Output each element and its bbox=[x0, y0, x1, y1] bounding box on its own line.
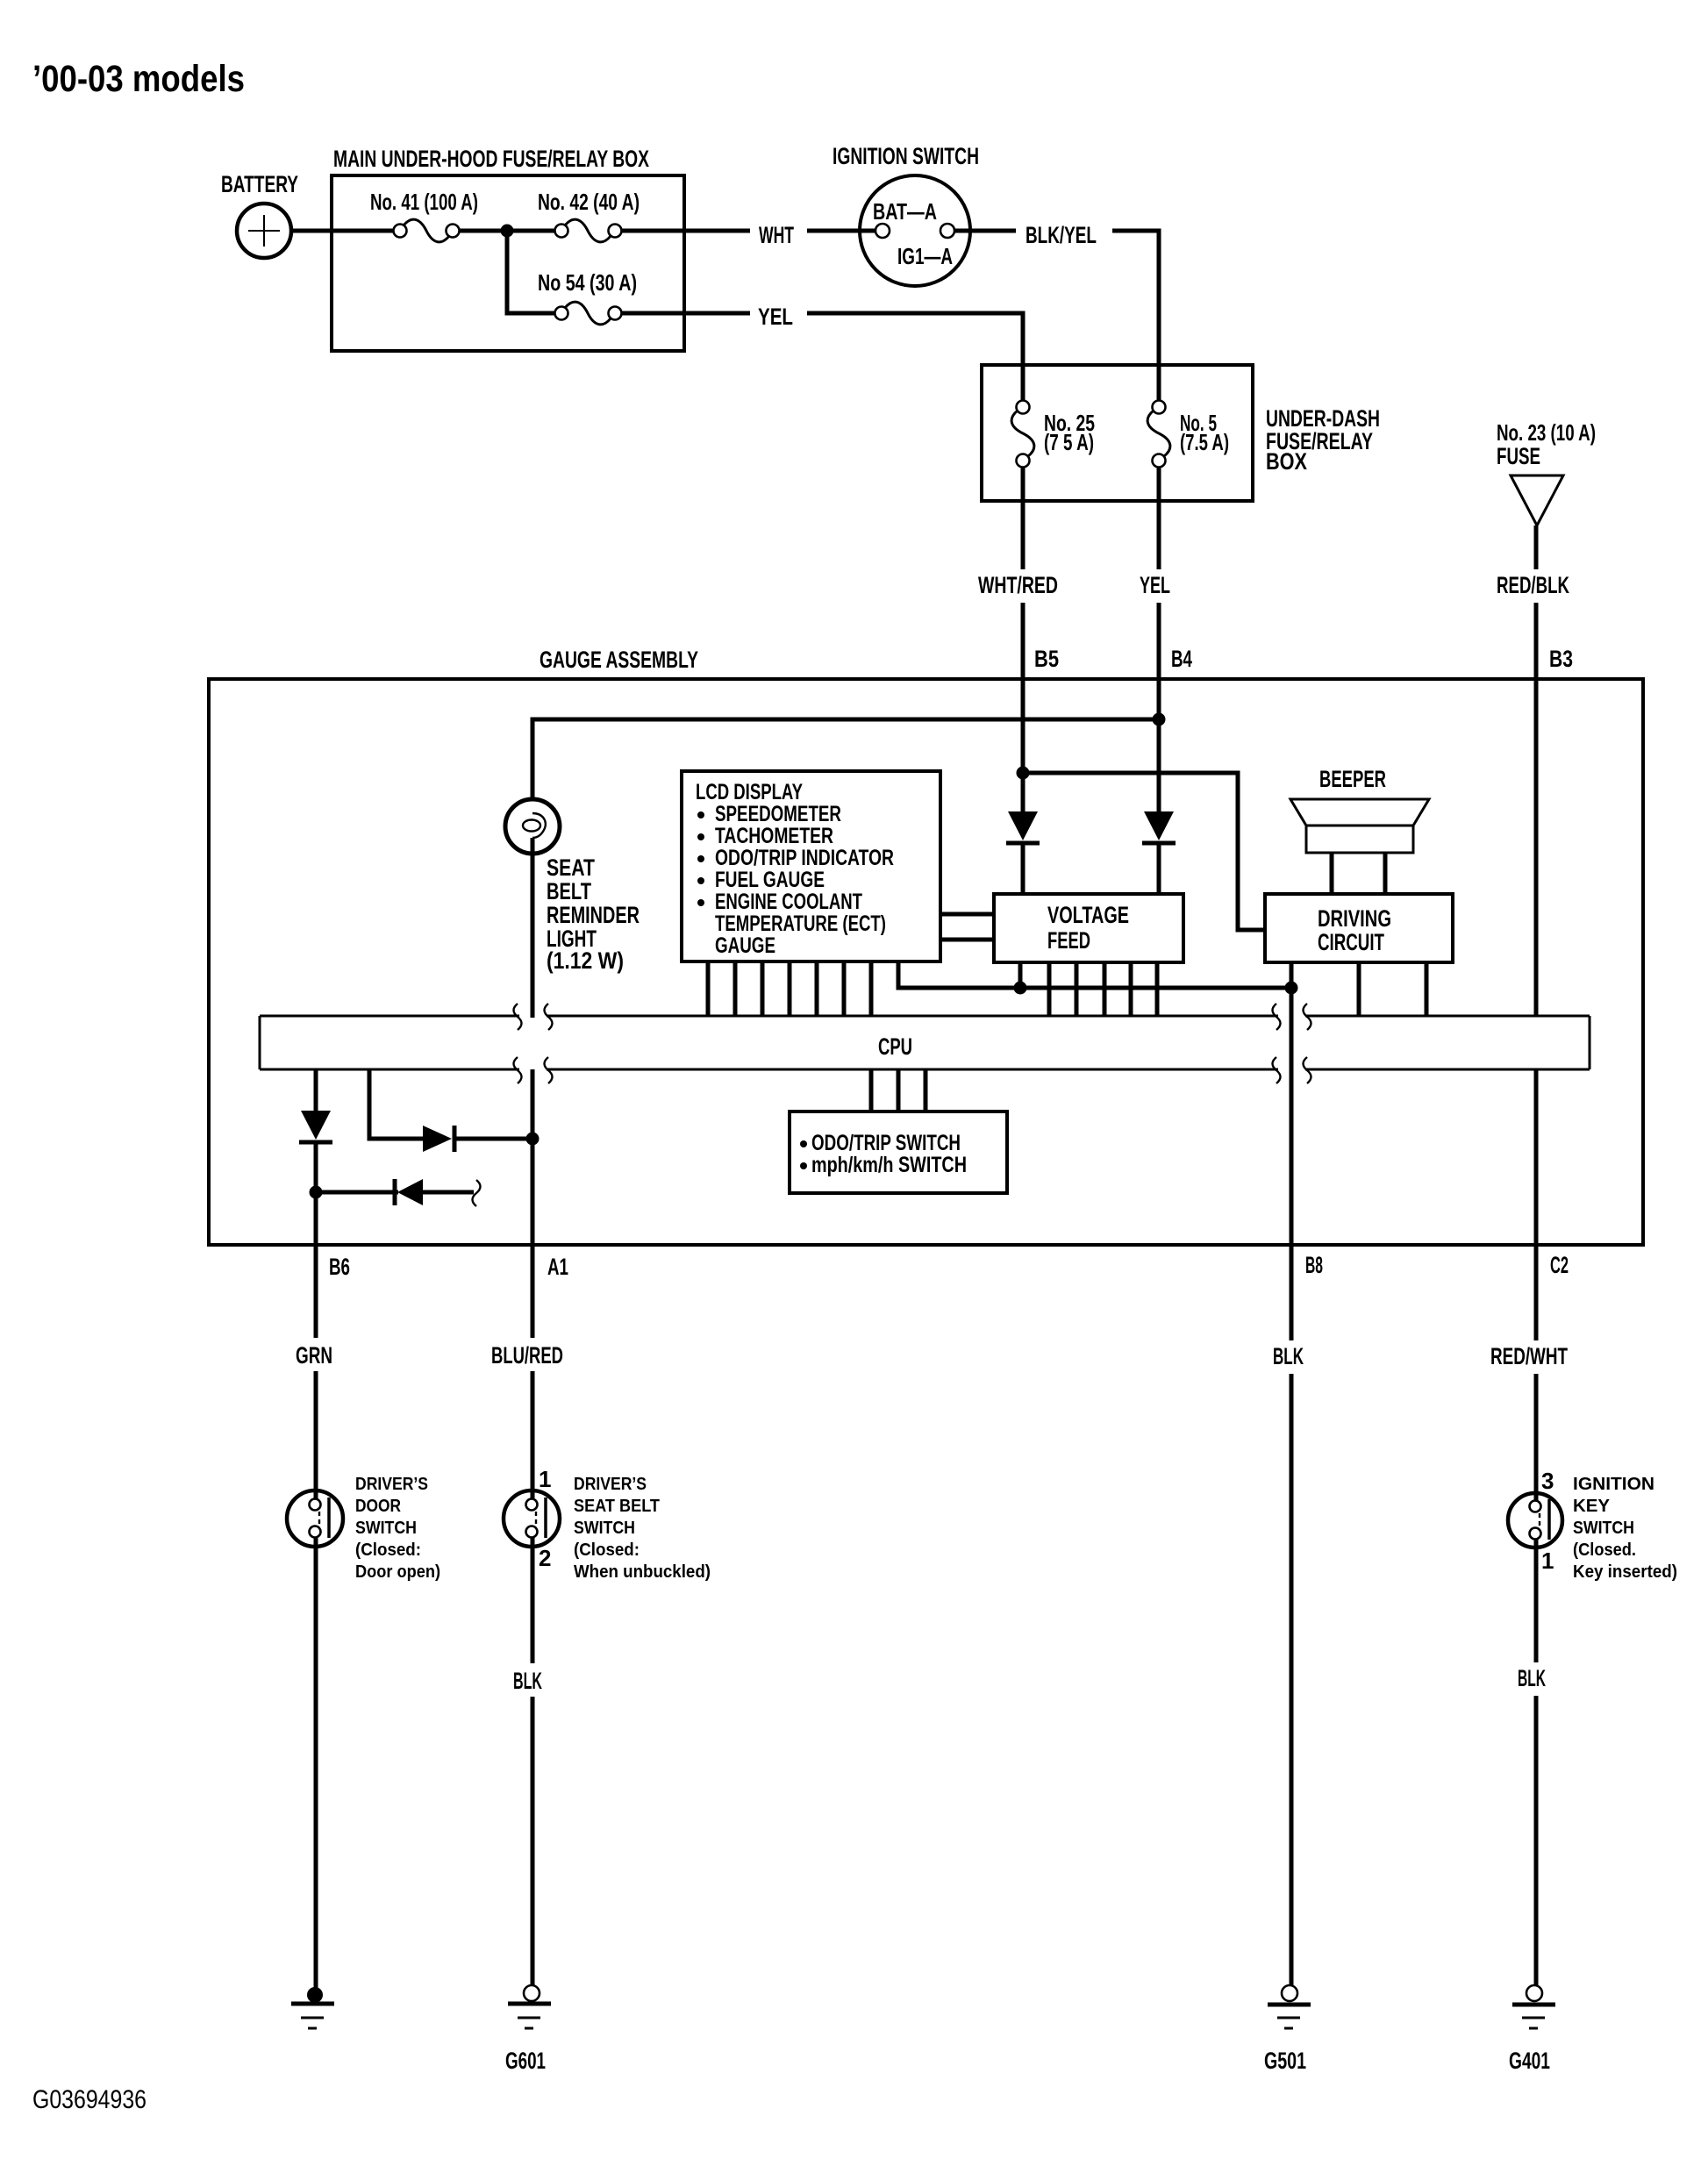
svg-text:SWITCH: SWITCH bbox=[355, 1519, 417, 1538]
svg-text:BLK: BLK bbox=[513, 1668, 542, 1694]
wire WHT to ignition switch BAT-A bbox=[807, 229, 875, 233]
svg-text:No 54 (30 A): No 54 (30 A) bbox=[538, 269, 637, 296]
gauge assembly box bbox=[209, 679, 1643, 1245]
svg-text:G501: G501 bbox=[1264, 2048, 1306, 2074]
wire BLK to ground G401 bbox=[1534, 1696, 1539, 1986]
diode D5 pointing left on branch bbox=[316, 1179, 474, 1205]
svg-text:(Closed:: (Closed: bbox=[574, 1540, 640, 1560]
svg-text:WHT: WHT bbox=[759, 222, 794, 248]
node junction B6 wire branch bbox=[310, 1186, 323, 1199]
node junction on B4 wire bbox=[1153, 713, 1166, 726]
driving circuit label bbox=[1318, 905, 1391, 955]
ground G601 bbox=[508, 1985, 551, 2028]
beeper symbol bbox=[1290, 799, 1429, 853]
svg-text:(7.5 A): (7.5 A) bbox=[1180, 429, 1229, 455]
diode D4 pointing right bbox=[423, 1126, 532, 1152]
wire B8 to BLK bbox=[1290, 1245, 1294, 1340]
svg-text:IG1—A: IG1—A bbox=[897, 243, 953, 269]
odo/trip switch labels bbox=[800, 1131, 967, 1177]
wire seat belt light top feed from B4 bbox=[532, 719, 1159, 799]
svg-text:Key inserted): Key inserted) bbox=[1573, 1562, 1677, 1582]
svg-text:A1: A1 bbox=[547, 1254, 568, 1280]
odo/trip switch box bbox=[790, 1112, 1007, 1193]
svg-text:SEAT BELT: SEAT BELT bbox=[574, 1497, 660, 1516]
fuse No. 5 value label bbox=[1180, 410, 1229, 455]
svg-text:KEY: KEY bbox=[1573, 1497, 1611, 1516]
LCD display text bbox=[696, 780, 894, 958]
battery symbol bbox=[237, 204, 291, 258]
wire fuse23 down to RED/BLK bbox=[1534, 525, 1539, 569]
svg-text:(7 5 A): (7 5 A) bbox=[1044, 429, 1094, 455]
ground G501 bbox=[1268, 1985, 1311, 2028]
ignition switch U1 bbox=[860, 175, 970, 286]
fuse No. 5 bbox=[1147, 401, 1170, 468]
svg-text:WHT/RED: WHT/RED bbox=[978, 572, 1058, 598]
under-dash fuse/relay box bbox=[982, 365, 1253, 501]
svg-text:’00-03 models: ’00-03 models bbox=[32, 58, 245, 100]
wire YEL into gauge box to B4 junction bbox=[1157, 603, 1161, 811]
fuse No. 23 (10 A) FUSE label bbox=[1497, 419, 1596, 469]
svg-text:BLU/RED: BLU/RED bbox=[491, 1342, 563, 1369]
svg-text:MAIN UNDER-HOOD FUSE/RELAY BOX: MAIN UNDER-HOOD FUSE/RELAY BOX bbox=[333, 146, 649, 172]
svg-text:GAUGE: GAUGE bbox=[715, 933, 775, 958]
svg-text:DRIVER’S: DRIVER’S bbox=[355, 1475, 428, 1494]
seat belt reminder light label bbox=[547, 854, 640, 974]
voltage feed label bbox=[1047, 902, 1129, 954]
LCD display box bbox=[682, 771, 940, 961]
svg-text:BAT—A: BAT—A bbox=[873, 198, 937, 225]
driver's seat belt switch S2 bbox=[504, 1490, 560, 1547]
svg-text:BATTERY: BATTERY bbox=[221, 171, 298, 197]
voltage feed box bbox=[994, 894, 1183, 962]
svg-text:1: 1 bbox=[1541, 1548, 1554, 1574]
wire junction down to fuse54 bbox=[507, 231, 555, 313]
svg-text:DOOR: DOOR bbox=[355, 1497, 401, 1516]
svg-text:C2: C2 bbox=[1550, 1252, 1569, 1278]
svg-text:TACHOMETER: TACHOMETER bbox=[715, 824, 833, 848]
wire BLK to ground G601 bbox=[531, 1697, 535, 1986]
node junction voltage feed pin 1 bbox=[1014, 982, 1027, 995]
svg-text:VOLTAGE: VOLTAGE bbox=[1047, 902, 1129, 928]
svg-text:2: 2 bbox=[539, 1545, 551, 1571]
beeper legs to driving circuit bbox=[1332, 853, 1385, 894]
ignition key switch label bbox=[1573, 1475, 1677, 1582]
svg-text:BLK: BLK bbox=[1518, 1665, 1546, 1691]
svg-text:ODO/TRIP SWITCH: ODO/TRIP SWITCH bbox=[811, 1131, 961, 1155]
svg-text:(Closed:: (Closed: bbox=[355, 1540, 421, 1560]
svg-text:3: 3 bbox=[1541, 1468, 1554, 1494]
wire B6 from CPU bbox=[314, 1069, 318, 1111]
wire LCD to voltage feed stub 2 bbox=[940, 938, 994, 942]
wire door switch to ground bbox=[314, 1538, 318, 1991]
wire key switch to BLK bbox=[1534, 1540, 1539, 1662]
svg-text:RED/WHT: RED/WHT bbox=[1490, 1343, 1568, 1369]
wire WHT/RED into gauge box to B5 junction bbox=[1021, 603, 1026, 776]
svg-text:mph/km/h SWITCH: mph/km/h SWITCH bbox=[811, 1153, 967, 1177]
svg-text:B4: B4 bbox=[1171, 646, 1192, 672]
wire B6 to GRN bbox=[314, 1245, 318, 1338]
fuse No. 42 bbox=[555, 219, 622, 242]
seat belt reminder light bulb bbox=[505, 799, 560, 1018]
wire IG1-A to BLK/YEL bbox=[954, 229, 1016, 233]
driver's door switch S1 bbox=[287, 1490, 343, 1547]
svg-text:IGNITION: IGNITION bbox=[1573, 1475, 1654, 1494]
svg-text:B8: B8 bbox=[1305, 1252, 1323, 1278]
wire B5 junction to driving circuit bbox=[1023, 773, 1265, 930]
svg-text:1: 1 bbox=[539, 1466, 551, 1492]
voltage feed pins to CPU bbox=[1049, 962, 1157, 1016]
fuse No. 25 value label bbox=[1044, 410, 1095, 455]
wire seat belt light through CPU to A1 bbox=[531, 1069, 535, 1245]
svg-text:G601: G601 bbox=[505, 2048, 546, 2074]
svg-text:BELT: BELT bbox=[547, 878, 591, 904]
diode D1 on B5 feed bbox=[1006, 776, 1040, 894]
wire RED/BLK below CPU to C2 bbox=[1534, 1069, 1539, 1245]
wire fuse42 to WHT bbox=[621, 229, 750, 233]
diode D2 on B4 feed bbox=[1142, 811, 1176, 894]
svg-text:CIRCUIT: CIRCUIT bbox=[1318, 929, 1384, 955]
diode D3 on B6 wire bbox=[299, 1111, 332, 1245]
svg-text:YEL: YEL bbox=[1140, 572, 1170, 598]
wire battery to fuse box bbox=[291, 229, 394, 233]
CPU pins to odo/trip switch box bbox=[871, 1069, 925, 1112]
node junction seat belt wire and D4 bbox=[526, 1133, 540, 1146]
svg-text:SPEEDOMETER: SPEEDOMETER bbox=[715, 802, 841, 826]
svg-text:GAUGE ASSEMBLY: GAUGE ASSEMBLY bbox=[540, 647, 698, 673]
svg-text:Door open): Door open) bbox=[355, 1562, 440, 1582]
svg-text:No. 42 (40 A): No. 42 (40 A) bbox=[538, 189, 640, 215]
svg-text:ODO/TRIP INDICATOR: ODO/TRIP INDICATOR bbox=[715, 846, 894, 870]
svg-text:BLK/YEL: BLK/YEL bbox=[1026, 222, 1097, 248]
node junction on B5 wire bbox=[1017, 767, 1030, 780]
wire from CPU to diode D4 bbox=[369, 1069, 423, 1139]
ground door switch bbox=[291, 1987, 334, 2028]
driving circuit pin 1 wire through CPU to B8 bbox=[1290, 962, 1294, 1245]
svg-text:FEED: FEED bbox=[1047, 927, 1090, 954]
svg-text:TEMPERATURE (ECT): TEMPERATURE (ECT) bbox=[715, 911, 886, 936]
wire fuse41 to junction bbox=[459, 229, 555, 233]
node junction driving circuit pin 1 bbox=[1285, 982, 1298, 995]
fuse No. 23 triangle symbol bbox=[1511, 475, 1563, 525]
wire break marks at CPU crossings bbox=[514, 1004, 1311, 1083]
wire RED/BLK into gauge box to CPU bbox=[1534, 603, 1539, 1016]
svg-text:B3: B3 bbox=[1549, 646, 1573, 672]
wire break mark on D5 branch bbox=[473, 1180, 481, 1206]
fuse No. 41 bbox=[394, 219, 460, 242]
wire fuse5 down to YEL bbox=[1157, 467, 1161, 569]
wire A1 to BLU/RED bbox=[531, 1245, 535, 1338]
svg-text:SWITCH: SWITCH bbox=[1573, 1519, 1634, 1538]
wire GRN to door switch bbox=[314, 1371, 318, 1499]
svg-text:SEAT: SEAT bbox=[547, 854, 595, 881]
driving circuit pins to CPU bbox=[1359, 962, 1426, 1016]
svg-text:No. 41 (100 A): No. 41 (100 A) bbox=[370, 189, 478, 215]
LCD pins to CPU bbox=[708, 961, 871, 1016]
driver's door switch label bbox=[355, 1475, 440, 1582]
ground G401 bbox=[1512, 1985, 1555, 2028]
svg-text:BEEPER: BEEPER bbox=[1319, 766, 1386, 792]
svg-text:FUEL GAUGE: FUEL GAUGE bbox=[715, 868, 825, 892]
CPU bar bbox=[260, 1016, 1590, 1069]
svg-text:RED/BLK: RED/BLK bbox=[1497, 572, 1569, 598]
svg-text:No. 23 (10 A): No. 23 (10 A) bbox=[1497, 419, 1596, 446]
svg-text:G03694936: G03694936 bbox=[32, 2085, 147, 2114]
svg-text:REMINDER: REMINDER bbox=[547, 902, 640, 928]
svg-text:CPU: CPU bbox=[878, 1033, 912, 1060]
svg-text:DRIVING: DRIVING bbox=[1318, 905, 1391, 932]
svg-text:When unbuckled): When unbuckled) bbox=[574, 1562, 711, 1582]
svg-text:LCD DISPLAY: LCD DISPLAY bbox=[696, 780, 803, 804]
svg-text:B5: B5 bbox=[1034, 646, 1059, 672]
svg-text:DRIVER’S: DRIVER’S bbox=[574, 1475, 647, 1494]
svg-text:IGNITION SWITCH: IGNITION SWITCH bbox=[833, 143, 979, 169]
wire LCD pin 8 to driving circuit pin junction bbox=[898, 961, 1291, 988]
svg-text:SWITCH: SWITCH bbox=[574, 1519, 635, 1538]
wire C2 to RED/WHT bbox=[1534, 1245, 1539, 1340]
svg-text:GRN: GRN bbox=[296, 1342, 332, 1369]
wire fuse54 to YEL bbox=[621, 311, 750, 316]
driver's seat belt switch label bbox=[574, 1475, 711, 1582]
svg-text:(Closed.: (Closed. bbox=[1573, 1540, 1636, 1560]
driving circuit box bbox=[1265, 894, 1453, 962]
fuse No. 54 bbox=[555, 302, 622, 325]
wire RED/WHT to ignition key switch bbox=[1534, 1374, 1539, 1501]
under-dash fuse/relay box label bbox=[1266, 405, 1380, 475]
svg-text:ENGINE COOLANT: ENGINE COOLANT bbox=[715, 890, 862, 914]
svg-text:FUSE: FUSE bbox=[1497, 443, 1540, 469]
svg-text:(1.12 W): (1.12 W) bbox=[547, 947, 624, 974]
ignition key switch S3 bbox=[1508, 1493, 1562, 1548]
svg-text:BOX: BOX bbox=[1266, 448, 1307, 475]
wire fuse25 down to WHT/RED bbox=[1021, 467, 1026, 569]
wire YEL to under-dash box bbox=[807, 313, 1023, 401]
svg-text:YEL: YEL bbox=[758, 304, 793, 330]
wire seat belt switch to BLK bbox=[531, 1538, 535, 1663]
node junction A bbox=[501, 225, 514, 238]
wire BLK to ground G501 bbox=[1290, 1374, 1294, 1986]
wire LCD to voltage feed stub 1 bbox=[940, 912, 994, 917]
svg-text:B6: B6 bbox=[329, 1254, 350, 1280]
fuse No. 25 bbox=[1011, 401, 1034, 468]
svg-text:BLK: BLK bbox=[1273, 1343, 1304, 1369]
main under-hood fuse/relay box bbox=[332, 175, 684, 351]
wire BLK/YEL to under-dash box bbox=[1112, 231, 1159, 401]
wire BLU/RED to seat belt switch bbox=[531, 1371, 535, 1499]
voltage feed pin 1 to junction bbox=[1018, 962, 1023, 988]
svg-text:G401: G401 bbox=[1509, 2048, 1550, 2074]
